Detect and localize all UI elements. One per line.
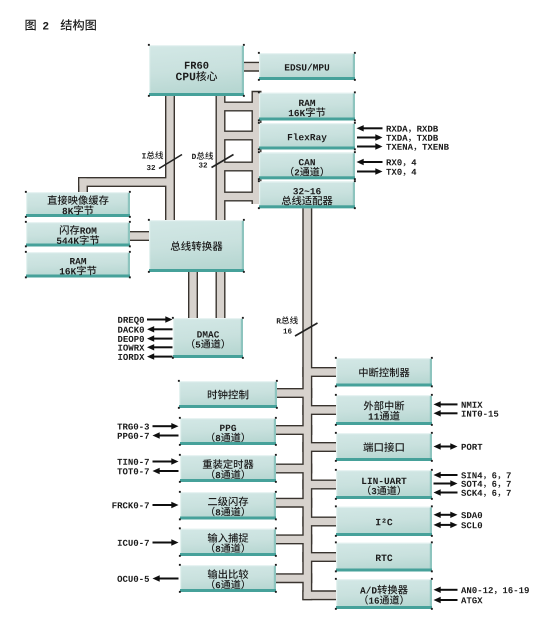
label I总线 <box>142 151 163 159</box>
wire R-bus to external interrupt (outline) <box>302 405 337 415</box>
block A/D converter <box>335 578 433 610</box>
arrow FRCK0-7 in <box>112 502 178 509</box>
wire R-bus to RTC (fill) <box>307 553 337 560</box>
arrow TXENA,TXENB out <box>357 143 449 151</box>
wire R-bus to output compare (fill) <box>275 575 307 582</box>
arrow TX0,4 out <box>357 168 416 176</box>
wire flash ROM to bus converter (outline) <box>129 231 150 241</box>
wire R-bus to clock control (outline) <box>275 388 312 398</box>
wire right distribution bus (outline) <box>252 91 262 204</box>
arrow OCU0-5 out <box>117 575 178 582</box>
wire R-bus to reload timer (fill) <box>275 465 307 472</box>
wire R-bus to interrupt controller (outline) <box>302 367 337 377</box>
wire R-bus to input capture (outline) <box>275 534 312 544</box>
wire R-bus to reload timer (outline) <box>275 464 312 474</box>
arrow DEOP0 out <box>118 335 172 342</box>
wire R-bus to A/D converter (fill) <box>304 592 337 599</box>
wire R-bus vertical (fill) <box>304 208 311 599</box>
wire D-bus vertical (fill) <box>217 95 224 221</box>
wire bus A converter to DMAC (fill) <box>189 271 196 319</box>
wire I-bus vertical (fill) <box>166 95 173 221</box>
arrow TRG0-3 in <box>117 423 178 430</box>
tick R-bus width marker <box>295 323 318 336</box>
block reload timer <box>179 454 277 483</box>
wire bus B converter to DMAC (outline) <box>216 271 226 319</box>
arrow PPG0-7 out <box>118 432 179 439</box>
wire bus A converter to DMAC (outline) <box>188 271 198 319</box>
block RAM 16K (right) <box>258 91 356 121</box>
arrow TIN0-7 in <box>117 458 178 465</box>
block direct-mapped cache <box>25 191 131 218</box>
block port interface <box>335 432 433 462</box>
wire right distribution bus (fill) <box>253 92 260 204</box>
arrow DREQ0 in <box>118 316 172 324</box>
block FR60 CPU core <box>148 44 245 97</box>
wire R-bus to LIN-UART (outline) <box>302 480 337 490</box>
wire D-bus to RAM (outline) <box>216 102 261 112</box>
arrow SDA0 bidir <box>434 512 483 519</box>
block EDSU/MPU <box>258 52 356 81</box>
arrow NMIX in <box>434 401 483 408</box>
label 32 (D-bus) <box>199 163 207 168</box>
wire stub down to cache (outline) <box>78 177 88 193</box>
label 32 (I-bus) <box>147 165 155 170</box>
block CAN <box>258 151 356 180</box>
label CPU核心 <box>176 71 217 81</box>
wire R-bus to PPG (outline) <box>275 425 312 435</box>
wire R-bus to port interface (fill) <box>307 443 337 450</box>
block RAM 16K (left) <box>25 251 131 278</box>
wire D-bus to CAN (fill) <box>221 163 261 170</box>
wire R-bus to A/D converter (outline) <box>302 590 337 600</box>
wire D-bus to CAN (outline) <box>216 162 261 172</box>
block 32~16 bus adapter <box>258 180 356 209</box>
wire R-bus to secondary flash (outline) <box>275 498 312 508</box>
wire R-bus to external interrupt (fill) <box>307 406 337 413</box>
arrow TOT0-7 out <box>117 468 178 475</box>
wire D-bus to FlexRay (outline) <box>216 131 261 141</box>
wire CPU to EDSU/MPU (outline) <box>243 62 260 72</box>
tick D-bus width marker <box>212 155 234 168</box>
arrow SIN4,6,7 in <box>434 472 511 480</box>
block output compare <box>179 564 277 593</box>
arrow ATGX in <box>434 597 483 604</box>
arrow SOT4,6,7 out <box>434 480 511 488</box>
arrow INT0-15 in <box>434 410 499 417</box>
wire bus B converter to DMAC (fill) <box>217 271 224 319</box>
wire R-bus to clock control (fill) <box>275 389 307 396</box>
wire D-bus to bus adapter (outline) <box>216 192 261 202</box>
wire branch to cache block (outline) <box>78 177 175 187</box>
label R总线 <box>277 316 298 324</box>
block input capture <box>179 527 277 556</box>
block FlexRay <box>258 122 356 150</box>
tick I-bus width marker <box>159 155 182 169</box>
arrow RXDA,RXDB in <box>357 125 439 133</box>
block DMAC <box>172 317 244 359</box>
arrow SCK4,6,7 in <box>434 489 511 497</box>
block external interrupt <box>335 394 433 426</box>
wire R-bus to output compare (outline) <box>275 573 312 583</box>
arrow ICU0-7 in <box>118 539 179 546</box>
label D总线 <box>192 152 213 160</box>
arrow DACK0 out <box>118 326 172 333</box>
block clock control <box>178 380 278 409</box>
wire R-bus to port interface (outline) <box>302 442 337 452</box>
arrow PORT bidir <box>434 443 483 450</box>
wire D-bus to FlexRay (fill) <box>221 132 261 139</box>
arrow IOWRX out <box>118 344 172 351</box>
block interrupt controller <box>335 357 433 387</box>
arrow SCL0 bidir <box>434 522 483 529</box>
arrow IORDX out <box>118 353 172 360</box>
block flash ROM 544K <box>25 221 131 247</box>
block PPG <box>179 417 277 446</box>
wire R-bus to RTC (outline) <box>302 552 337 562</box>
wire R-bus to secondary flash (fill) <box>275 499 307 506</box>
wire D-bus to RAM (fill) <box>221 103 261 110</box>
block I2C <box>335 505 433 536</box>
title 图2 结构图 <box>26 19 96 30</box>
wire stub down to cache (fill) <box>79 178 86 192</box>
block LIN-UART <box>335 469 433 500</box>
wire R-bus to input capture (fill) <box>275 536 307 543</box>
wire R-bus to PPG (fill) <box>275 426 307 433</box>
wire R-bus to LIN-UART (fill) <box>307 481 337 488</box>
wire R-bus to interrupt controller (fill) <box>307 368 337 375</box>
wire CPU to EDSU/MPU (fill) <box>243 63 260 70</box>
wire branch to cache block (fill) <box>79 178 170 185</box>
wire D-bus vertical (outline) <box>216 95 226 221</box>
block secondary flash <box>179 491 277 520</box>
label 16 (R-bus) <box>284 329 292 334</box>
block RTC <box>335 541 433 572</box>
wire R-bus to I2C (fill) <box>307 518 337 525</box>
label FR60 <box>185 62 209 69</box>
arrow AN0-12,16-19 in <box>434 587 529 595</box>
arrow RX0,4 in <box>357 159 417 167</box>
wire I-bus vertical (outline) <box>165 95 175 221</box>
block bus converter <box>148 219 245 273</box>
wire R-bus to I2C (outline) <box>302 517 337 527</box>
wire flash ROM to bus converter (fill) <box>129 232 150 239</box>
wire D-bus to bus adapter (fill) <box>221 193 261 200</box>
wire R-bus vertical (outline) <box>302 208 312 601</box>
arrow TXDA,TXDB out <box>357 134 438 142</box>
